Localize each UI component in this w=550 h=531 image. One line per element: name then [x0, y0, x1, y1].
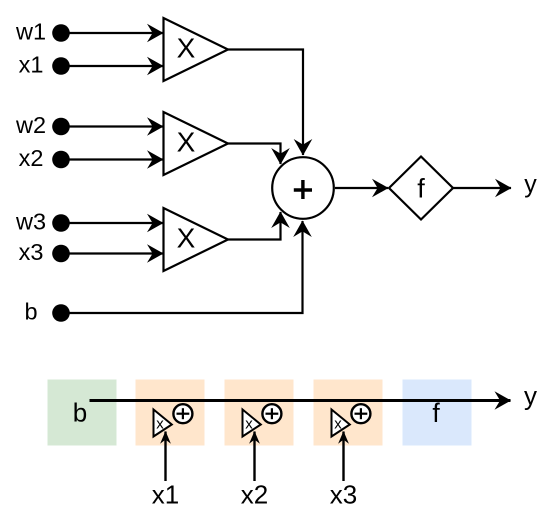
multiplier U3	[164, 208, 229, 271]
svg-text:X: X	[177, 33, 196, 64]
summer S1	[272, 157, 334, 219]
node dot b	[52, 304, 70, 322]
svg-text:x: x	[334, 416, 342, 433]
svg-text:x2: x2	[241, 480, 268, 510]
wire x2 to multiplier U2	[61, 158, 163, 160]
svg-text:X: X	[177, 127, 196, 158]
svg-text:X: X	[177, 223, 196, 254]
weight block 2 orange	[225, 380, 294, 446]
node dot w2	[52, 118, 70, 136]
input arrow x3	[342, 432, 344, 482]
wire b to summer	[61, 221, 303, 313]
wire x1 to multiplier U1	[61, 65, 163, 67]
node dot w3	[52, 214, 70, 232]
mini multiplier 3	[332, 410, 350, 437]
node dot x1	[52, 57, 70, 75]
svg-text:b: b	[73, 398, 87, 428]
wire summer to activation f	[335, 187, 388, 189]
mini multiplier 2	[243, 410, 261, 437]
pipeline arrow to y	[90, 399, 511, 402]
wire x3 to multiplier U3	[61, 252, 163, 254]
svg-text:w2: w2	[15, 112, 46, 138]
svg-text:y: y	[524, 171, 537, 199]
node dot x3	[52, 245, 70, 263]
input arrow x1	[164, 432, 166, 482]
weight block 1 orange	[136, 380, 205, 446]
svg-text:x: x	[156, 416, 164, 433]
node dot w1	[52, 24, 70, 42]
svg-text:b: b	[24, 299, 37, 325]
wire U1 to summer	[228, 50, 303, 156]
activation block blue	[403, 380, 472, 446]
svg-text:x1: x1	[19, 52, 44, 78]
svg-text:f: f	[432, 398, 440, 428]
mini summer 3	[351, 404, 370, 423]
svg-text:y: y	[524, 381, 537, 411]
svg-text:x1: x1	[152, 480, 179, 510]
svg-text:w3: w3	[15, 209, 46, 235]
svg-text:x: x	[245, 416, 253, 433]
mini summer 1	[173, 404, 192, 423]
mini summer 2	[262, 404, 281, 423]
node dot x2	[52, 151, 70, 169]
wire w2 to multiplier U2	[61, 125, 163, 127]
wire U3 to summer	[228, 212, 281, 240]
mini multiplier 1	[154, 410, 172, 437]
svg-text:w1: w1	[15, 19, 46, 45]
multiplier U2	[164, 112, 229, 175]
activation f diamond	[389, 157, 453, 220]
wire w1 to multiplier U1	[61, 32, 163, 34]
wire activation to output y	[453, 187, 511, 189]
wire U2 to summer	[228, 144, 281, 165]
svg-text:f: f	[417, 174, 425, 204]
weight block 3 orange	[314, 380, 383, 446]
multiplier U1	[164, 18, 229, 81]
input arrow x2	[253, 432, 255, 482]
svg-text:x2: x2	[19, 145, 44, 171]
svg-text:x3: x3	[330, 480, 357, 510]
svg-text:x3: x3	[19, 239, 44, 265]
bias block green	[48, 380, 117, 446]
wire w3 to multiplier U3	[61, 222, 163, 224]
